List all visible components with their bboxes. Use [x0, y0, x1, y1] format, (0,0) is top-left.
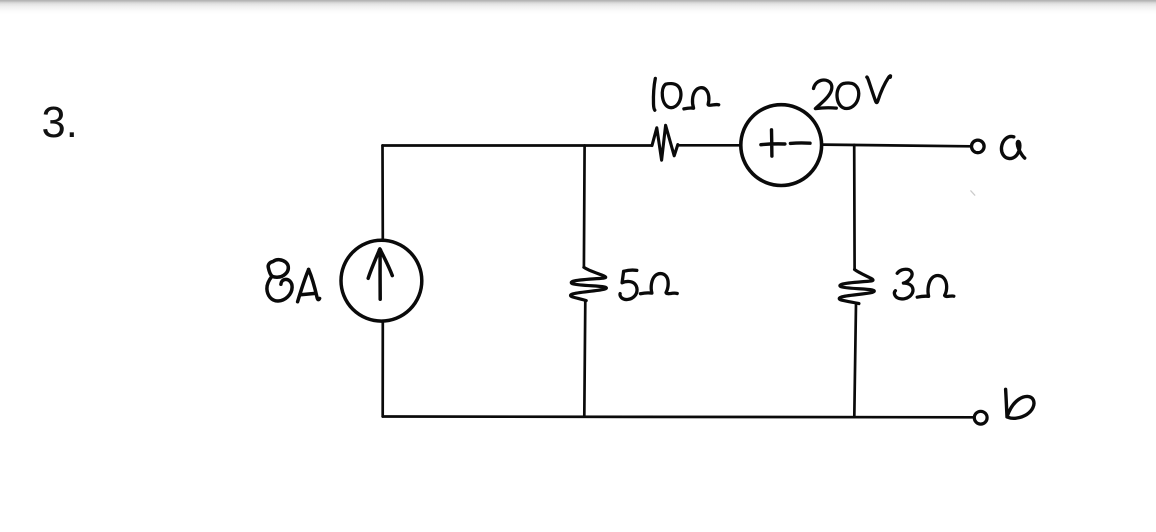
wire — [678, 144, 740, 147]
wire — [823, 145, 970, 147]
wire left vertical bottom — [381, 322, 384, 416]
toolbar bottom edge band — [0, 0, 1156, 16]
wire middle vertical bottom — [584, 301, 585, 417]
stray faint mark — [971, 191, 975, 195]
plus sign — [761, 130, 785, 156]
label 8A — [267, 260, 320, 302]
svg-text:3.: 3. — [42, 99, 78, 147]
minus sign — [790, 141, 810, 145]
wire right vertical top — [853, 145, 856, 270]
resistor 3ohm squiggle — [839, 270, 874, 304]
arrow tip blob — [378, 248, 383, 253]
wire right vertical bottom — [854, 304, 856, 417]
wire middle vertical top — [583, 146, 586, 268]
wire left vertical top — [381, 146, 384, 239]
label 3ohm — [894, 269, 953, 299]
current source I1 — [341, 240, 422, 321]
label 5ohm — [620, 270, 677, 299]
voltage source V1 — [741, 105, 822, 186]
arrow up — [368, 249, 392, 299]
label 20V — [814, 75, 893, 109]
terminal a circle — [972, 140, 985, 153]
label 10ohm — [653, 78, 718, 110]
wire top rail — [383, 144, 653, 147]
label b — [1006, 389, 1034, 418]
terminal b circle — [974, 411, 987, 424]
label a — [1001, 136, 1024, 158]
resistor 10ohm squiggle — [652, 125, 678, 160]
wire bottom rail — [383, 415, 973, 418]
resistor 5ohm squiggle — [571, 267, 607, 300]
